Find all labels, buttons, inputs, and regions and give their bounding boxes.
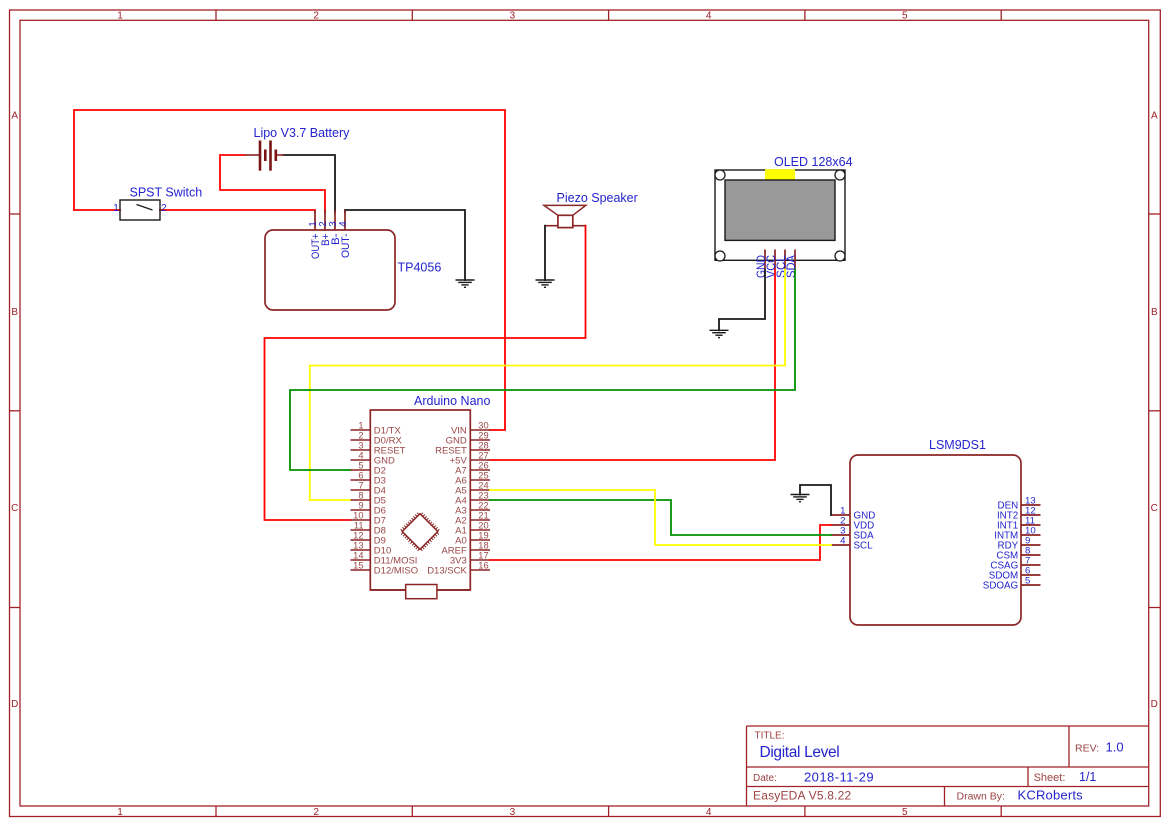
svg-text:KCRoberts: KCRoberts: [1018, 788, 1084, 803]
wire black battery - to TP4056 B-: [284, 155, 336, 212]
switch S1 SPST body: [120, 200, 160, 220]
wire net VIN red: battery loop top: [74, 110, 505, 430]
Arduino pin 13 D10: [351, 549, 371, 551]
svg-text:1: 1: [113, 202, 119, 214]
wire yellow Arduino A5 to LSM9DS1 SCL: [490, 490, 831, 545]
svg-text:C: C: [1151, 503, 1158, 514]
svg-text:6: 6: [358, 470, 363, 480]
svg-text:1: 1: [358, 420, 363, 430]
wire red switch pin1: [74, 209, 120, 211]
svg-text:25: 25: [478, 470, 488, 480]
TP4056 pin 4 OUT-: [344, 210, 346, 230]
wire black OLED GND to ground: [719, 270, 765, 331]
module U1 TP4056 body: [265, 230, 395, 310]
svg-text:A: A: [11, 111, 18, 122]
LSM9DS1 pin 12 INT2: [1021, 514, 1041, 516]
OLED yellow tab: [765, 169, 795, 180]
svg-text:SPST Switch: SPST Switch: [130, 186, 203, 200]
svg-text:19: 19: [478, 530, 488, 540]
ground G4 (LSM9DS1): [791, 494, 810, 496]
ground G2 (piezo): [536, 279, 555, 281]
svg-text:Arduino Nano: Arduino Nano: [414, 394, 490, 408]
svg-text:28: 28: [478, 440, 488, 450]
LSM9DS1 pin 7 CSAG: [1021, 564, 1041, 566]
Arduino pin 16 D13/SCK: [470, 569, 490, 571]
wire black TP4056 OUT- to ground: [345, 210, 465, 280]
wire black piezo to ground: [544, 226, 546, 280]
Arduino pin 5 D2: [351, 469, 371, 471]
wire green OLED SDA to Arduino D2: [290, 270, 795, 471]
svg-text:9: 9: [358, 500, 363, 510]
LSM9DS1 pin 8 CSM: [1021, 554, 1041, 556]
svg-text:13: 13: [353, 540, 363, 550]
wire red battery + to TP4056 B+: [220, 155, 325, 212]
svg-text:24: 24: [478, 480, 488, 490]
svg-text:11: 11: [354, 520, 364, 530]
OLED mounting holes: [715, 170, 725, 180]
svg-text:10: 10: [353, 510, 363, 520]
svg-text:D: D: [1151, 699, 1158, 710]
Arduino pin 3 RESET: [351, 449, 371, 451]
Arduino USB connector: [406, 585, 437, 599]
wire red OLED VCC to Arduino +5V: [490, 270, 775, 461]
speaker LS1 leads: [545, 225, 558, 227]
Arduino pin 29 GND: [470, 439, 490, 441]
svg-text:17: 17: [478, 550, 488, 560]
battery BT1 plates: [259, 141, 262, 171]
Arduino pin 17 3V3: [470, 559, 490, 561]
Arduino pin 1 D1/TX: [351, 429, 371, 431]
svg-text:4: 4: [706, 807, 712, 818]
LSM9DS1 pin 3 SDA: [831, 534, 850, 536]
Arduino pin 22 A3: [470, 509, 490, 511]
svg-text:OLED 128x64: OLED 128x64: [774, 155, 853, 169]
speaker LS1 piezo horn: [544, 205, 586, 215]
svg-text:14: 14: [353, 550, 363, 560]
svg-text:3: 3: [510, 807, 516, 818]
svg-text:4: 4: [840, 535, 846, 546]
ground G3 (OLED): [710, 329, 729, 331]
svg-text:Piezo Speaker: Piezo Speaker: [557, 191, 638, 205]
svg-text:TP4056: TP4056: [398, 261, 442, 275]
svg-text:B: B: [1151, 307, 1158, 318]
svg-text:4: 4: [358, 450, 363, 460]
Arduino pin 10 D7: [351, 519, 371, 521]
LSM9DS1 pin 2 VDD: [831, 524, 850, 526]
svg-text:3: 3: [510, 11, 516, 22]
svg-text:EasyEDA V5.8.22: EasyEDA V5.8.22: [753, 789, 852, 803]
speaker LS1 body: [558, 215, 573, 227]
Arduino pin 15 D12/MISO: [351, 569, 371, 571]
TP4056 pin 2 B+: [324, 210, 326, 230]
wire red switch pin2 to TP4056 OUT+: [160, 210, 315, 212]
OLED screen area: [725, 180, 835, 240]
sensor U3 LSM9DS1 body: [850, 455, 1021, 625]
svg-text:23: 23: [478, 490, 488, 500]
svg-text:21: 21: [478, 510, 488, 520]
svg-text:D13/SCK: D13/SCK: [427, 565, 467, 576]
Arduino pin 20 A1: [470, 529, 490, 531]
svg-text:1: 1: [117, 11, 123, 22]
svg-text:15: 15: [353, 560, 363, 570]
Arduino pin 19 A0: [470, 539, 490, 541]
wire black LSM9DS1 GND to ground: [800, 485, 831, 515]
svg-text:27: 27: [478, 450, 488, 460]
svg-text:Drawn By:: Drawn By:: [957, 791, 1005, 803]
svg-text:26: 26: [478, 460, 488, 470]
svg-text:30: 30: [478, 420, 488, 430]
switch S1 lever: [137, 205, 153, 211]
Arduino pin 9 D6: [351, 509, 371, 511]
svg-text:Sheet:: Sheet:: [1034, 772, 1066, 784]
svg-text:2018-11-29: 2018-11-29: [804, 770, 874, 785]
LSM9DS1 pin 11 INT1: [1021, 524, 1041, 526]
mcu U2 Arduino Nano body: [370, 410, 470, 590]
TP4056 pin 3 B-: [334, 210, 336, 230]
Arduino pin 27 +5V: [470, 459, 490, 461]
LSM9DS1 pin 1 GND: [831, 514, 850, 516]
Arduino pin 25 A6: [470, 479, 490, 481]
svg-text:18: 18: [478, 540, 488, 550]
LSM9DS1 pin 5 SDOAG: [1021, 584, 1041, 586]
Arduino pin 11 D8: [351, 529, 371, 531]
wire yellow OLED SCL to Arduino D5: [310, 270, 785, 501]
svg-text:C: C: [11, 503, 18, 514]
Arduino pin 8 D5: [351, 499, 371, 501]
svg-text:1.0: 1.0: [1106, 740, 1124, 755]
svg-text:2: 2: [313, 11, 319, 22]
svg-text:5: 5: [902, 807, 908, 818]
LSM9DS1 pin 4 SCL: [831, 544, 850, 546]
svg-text:2: 2: [313, 807, 319, 818]
Arduino pin 24 A5: [470, 489, 490, 491]
svg-text:B: B: [11, 307, 18, 318]
TP4056 pin 1 OUT+: [314, 210, 316, 230]
battery BT1 Lipo V3.7 leads: [245, 154, 260, 156]
svg-text:4: 4: [338, 221, 349, 227]
OLED pin SCL: [784, 250, 786, 270]
wire red Arduino 3V3 to LSM9DS1 VDD: [490, 525, 831, 560]
wire red piezo to Arduino D7: [265, 226, 586, 520]
Arduino pin 18 AREF: [470, 549, 490, 551]
Arduino MCU chip diamond: [398, 510, 442, 554]
Arduino pin 14 D11/MOSI: [351, 559, 371, 561]
svg-text:REV:: REV:: [1075, 743, 1099, 755]
display OLED 128x64 outer body: [715, 170, 845, 260]
svg-text:1/1: 1/1: [1079, 770, 1096, 784]
svg-text:D12/MISO: D12/MISO: [374, 565, 418, 576]
svg-text:TITLE:: TITLE:: [755, 731, 785, 742]
title block outline: [747, 725, 1149, 727]
Arduino pin 6 D3: [351, 479, 371, 481]
Arduino pin 2 D0/RX: [351, 439, 371, 441]
ground G1 (TP4056 OUT-): [456, 279, 475, 281]
Arduino pin 28 RESET: [470, 449, 490, 451]
svg-text:SDA: SDA: [786, 255, 798, 278]
LSM9DS1 pin 10 INTM: [1021, 534, 1041, 536]
svg-text:LSM9DS1: LSM9DS1: [929, 438, 986, 452]
Arduino pin 4 GND: [351, 459, 371, 461]
svg-text:7: 7: [358, 480, 363, 490]
LSM9DS1 pin 9 RDY: [1021, 544, 1041, 546]
svg-text:A: A: [1151, 111, 1158, 122]
Arduino pin 23 A4: [470, 499, 490, 501]
svg-text:Lipo V3.7 Battery: Lipo V3.7 Battery: [254, 126, 351, 140]
svg-text:22: 22: [478, 500, 488, 510]
svg-text:5: 5: [902, 11, 908, 22]
svg-text:Digital Level: Digital Level: [760, 744, 840, 761]
LSM9DS1 pin 13 DEN: [1021, 504, 1041, 506]
svg-text:D: D: [11, 699, 18, 710]
Arduino pin 12 D9: [351, 539, 371, 541]
OLED pin GND: [764, 250, 766, 270]
Arduino pin 26 A7: [470, 469, 490, 471]
svg-text:29: 29: [478, 430, 488, 440]
OLED pin SDA: [794, 250, 796, 270]
OLED pin VCC: [774, 250, 776, 270]
svg-text:2: 2: [358, 430, 363, 440]
Arduino pin 7 D4: [351, 489, 371, 491]
svg-text:OUT-: OUT-: [340, 233, 352, 258]
svg-text:12: 12: [353, 530, 363, 540]
Arduino pin 30 VIN: [470, 429, 490, 431]
svg-text:1: 1: [117, 807, 123, 818]
svg-text:SCL: SCL: [854, 541, 874, 552]
svg-text:5: 5: [358, 460, 363, 470]
svg-text:8: 8: [358, 490, 363, 500]
svg-text:16: 16: [478, 560, 488, 570]
LSM9DS1 pin 6 SDOM: [1021, 574, 1041, 576]
svg-text:2: 2: [161, 202, 167, 214]
Arduino pin 21 A2: [470, 519, 490, 521]
svg-text:3: 3: [358, 440, 363, 450]
svg-text:SDOAG: SDOAG: [983, 581, 1018, 592]
svg-text:5: 5: [1025, 575, 1030, 586]
svg-text:Date:: Date:: [753, 773, 777, 784]
svg-text:4: 4: [706, 11, 712, 22]
wire green Arduino A4 to LSM9DS1 SDA: [490, 500, 831, 535]
svg-text:20: 20: [478, 520, 488, 530]
